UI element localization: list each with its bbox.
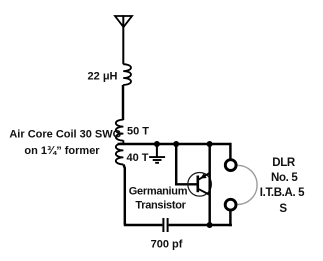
svg-text:Air Core Coil 30 SWG: Air Core Coil 30 SWG	[9, 128, 121, 140]
svg-text:40 T: 40 T	[127, 152, 149, 164]
svg-text:Germanium: Germanium	[129, 185, 188, 197]
svg-text:No. 5: No. 5	[271, 172, 298, 184]
svg-text:22 μH: 22 μH	[88, 71, 118, 83]
svg-text:Transistor: Transistor	[135, 199, 186, 211]
svg-text:I.T.B.A. 5: I.T.B.A. 5	[260, 187, 305, 199]
svg-text:S: S	[279, 203, 287, 215]
svg-text:on 1¾” former: on 1¾” former	[24, 145, 100, 157]
svg-text:700 pf: 700 pf	[151, 239, 183, 251]
svg-text:DLR: DLR	[272, 157, 296, 169]
svg-text:50 T: 50 T	[127, 125, 149, 137]
